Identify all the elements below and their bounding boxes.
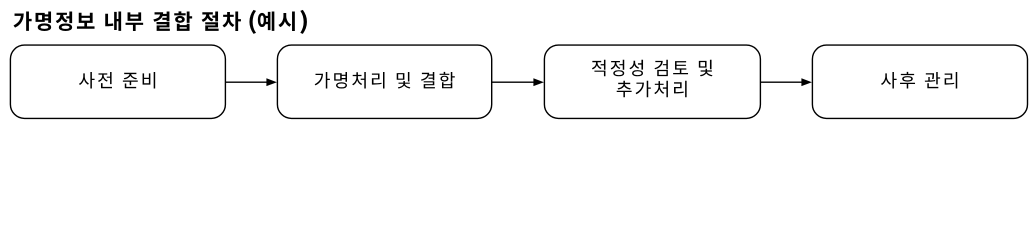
label text: 가명처리 및 결합 [315, 72, 455, 89]
process box 4: rounded rectangle [812, 45, 1027, 118]
title 가명정보 내부 결합 절차 (예시) [14, 10, 307, 34]
flowchart diagram: 가명정보 내부 결합 절차 (예시) [0, 0, 1034, 125]
label text: 적정성 검토 및 추가처리 [592, 60, 713, 98]
label text: 사전 준비 [79, 72, 155, 89]
process box 3: rounded rectangle [544, 45, 760, 118]
arrow connector 3 (box 3 to box 4) [760, 78, 812, 86]
process box 1: rounded rectangle [10, 45, 225, 118]
process box 2: rounded rectangle [277, 45, 491, 118]
label text: 사후 관리 [881, 72, 957, 89]
arrow connector 2 (box 2 to box 3) [492, 78, 544, 86]
arrow connector 1 (box 1 to box 2) [225, 78, 277, 86]
